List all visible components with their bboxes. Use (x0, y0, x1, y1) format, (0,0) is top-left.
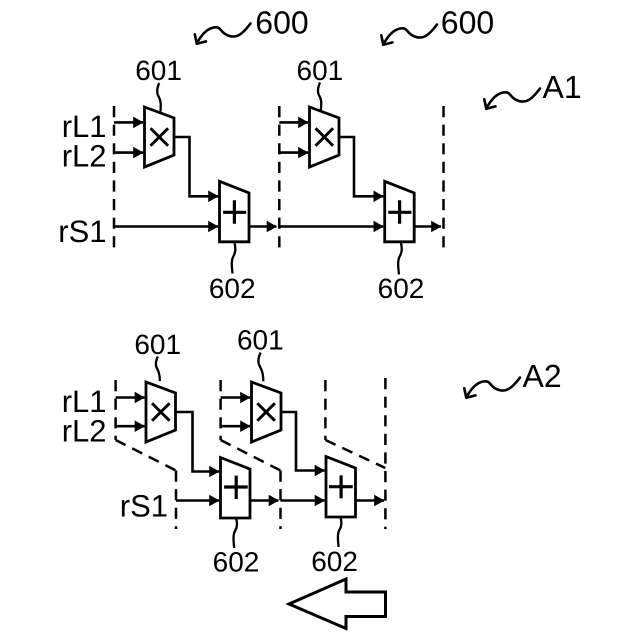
wire rS1 to adder (A2 stage 1) (176, 499, 219, 502)
stage boundary 1 bottom dashed vertical (A2) (175, 471, 178, 530)
stage boundary 2 top dashed vertical (A2) (219, 380, 222, 440)
svg-text:rL2: rL2 (62, 414, 107, 449)
wire adder output to boundary (A1 stage 2) (414, 225, 441, 228)
big hollow left arrow (289, 579, 386, 629)
stage boundary 3 dashed diagonal (A2) (325, 440, 385, 468)
leader squiggle 602 (A1 stage 2) (398, 243, 402, 275)
leader squiggle 601 (A2 stage 1) (156, 357, 160, 382)
wire rL2 input to multiplier (A2 stage 1) (116, 425, 145, 428)
multiply symbol (A1 stage 1) (151, 128, 169, 146)
svg-text:602: 602 (311, 546, 358, 577)
svg-text:rL2: rL2 (62, 139, 107, 174)
leader squiggle 601 (A2 stage 2) (258, 353, 263, 382)
svg-text:601: 601 (135, 55, 182, 86)
wire rS1 continuation to adder (A1 stage 2) (279, 225, 383, 228)
adder 602 (A2 stage 2) (326, 457, 356, 518)
svg-text:601: 601 (237, 325, 284, 356)
leader squiggle 602 (A2 stage 1) (234, 519, 237, 549)
wire rL1 input to multiplier (A2 stage 2) (221, 396, 250, 399)
svg-text:rS1: rS1 (58, 214, 106, 249)
stage boundary 3 top dashed vertical (A2) (324, 380, 327, 440)
svg-text:A2: A2 (523, 358, 562, 394)
wire adder output crossing boundary (A1 stage 1 to 2) (249, 225, 277, 228)
svg-text:A1: A1 (543, 69, 582, 105)
stage boundary dashed line 1 (A1) (113, 106, 116, 250)
squiggly arrow to A1 (484, 89, 540, 109)
stage boundary 2 bottom dashed vertical (A2) (279, 471, 282, 530)
squiggly arrow to 600 (left) (195, 24, 251, 44)
stage boundary dashed line 2 (A1) (278, 106, 281, 250)
stage boundary 1 dashed diagonal (A2) (116, 440, 176, 471)
wire rL2 input to multiplier 601 (A1 stage 1) (114, 151, 143, 154)
squiggly arrow to 600 (right) (381, 25, 437, 45)
stage boundary 1 top dashed vertical (A2) (114, 380, 117, 440)
multiplier 601 (A2 stage 2) (252, 382, 282, 442)
wire multiplier output to adder (A1 stage 2) (339, 137, 383, 196)
wire rL1 input to multiplier 601 (A1 stage 1) (114, 121, 143, 124)
wire rL2 input to multiplier (A1 stage 2) (279, 151, 308, 154)
stage boundary dashed line 3 (A1) (442, 106, 445, 250)
wire rS1 continuation to adder (A2 stage 2) (281, 499, 325, 502)
svg-text:600: 600 (255, 5, 308, 41)
wire multiplier output to adder (A1 stage 1) (174, 137, 218, 196)
multiplier 601 (A2 stage 1) (146, 382, 176, 442)
svg-text:601: 601 (297, 55, 344, 86)
stage boundary 4 full dashed vertical (A2) (384, 378, 387, 529)
wire adder output to boundary (A2 stage 2) (356, 499, 385, 502)
multiplier 601 (A1 stage 1) (145, 107, 175, 167)
multiply symbol (A2 stage 2) (257, 403, 275, 421)
wire rS1 to adder 602 (A1 stage 1) (114, 225, 218, 228)
wire rL1 input to multiplier (A1 stage 2) (279, 121, 308, 124)
wire multiplier output to adder (A2 stage 1) (176, 412, 220, 472)
squiggly arrow to A2 (464, 378, 520, 398)
wire adder output crossing boundary (A2 stage 1 to 2) (250, 499, 279, 502)
multiply symbol (A2 stage 1) (152, 403, 170, 421)
svg-text:601: 601 (134, 329, 181, 360)
svg-text:602: 602 (209, 273, 256, 304)
leader squiggle 602 (A2 stage 2) (338, 518, 341, 548)
svg-text:600: 600 (441, 5, 494, 41)
multiply symbol (A1 stage 2) (316, 128, 334, 146)
adder 602 (A2 stage 1) (221, 458, 251, 519)
wire rL1 input to multiplier (A2 stage 1) (116, 396, 145, 399)
stage boundary 2 dashed diagonal (A2) (221, 440, 281, 471)
wire rL2 input to multiplier (A2 stage 2) (221, 425, 250, 428)
wire multiplier output to adder (A2 stage 2) (281, 412, 325, 471)
leader squiggle 602 (A1 stage 1) (232, 243, 236, 274)
svg-text:602: 602 (213, 547, 260, 578)
plus symbol (A2 stage 2) (329, 475, 353, 498)
adder 602 (A1 stage 2) (385, 181, 415, 242)
leader squiggle 601 (A1 stage 2) (318, 83, 321, 112)
plus symbol (A1 stage 1) (223, 200, 246, 223)
leader squiggle 601 (A1 stage 1) (157, 83, 161, 112)
adder 602 (A1 stage 1) (220, 181, 250, 242)
plus symbol (A2 stage 1) (224, 476, 248, 499)
svg-text:rS1: rS1 (120, 489, 168, 524)
multiplier 601 (A1 stage 2) (310, 107, 340, 167)
plus symbol (A1 stage 2) (388, 200, 411, 223)
svg-text:602: 602 (378, 273, 425, 304)
